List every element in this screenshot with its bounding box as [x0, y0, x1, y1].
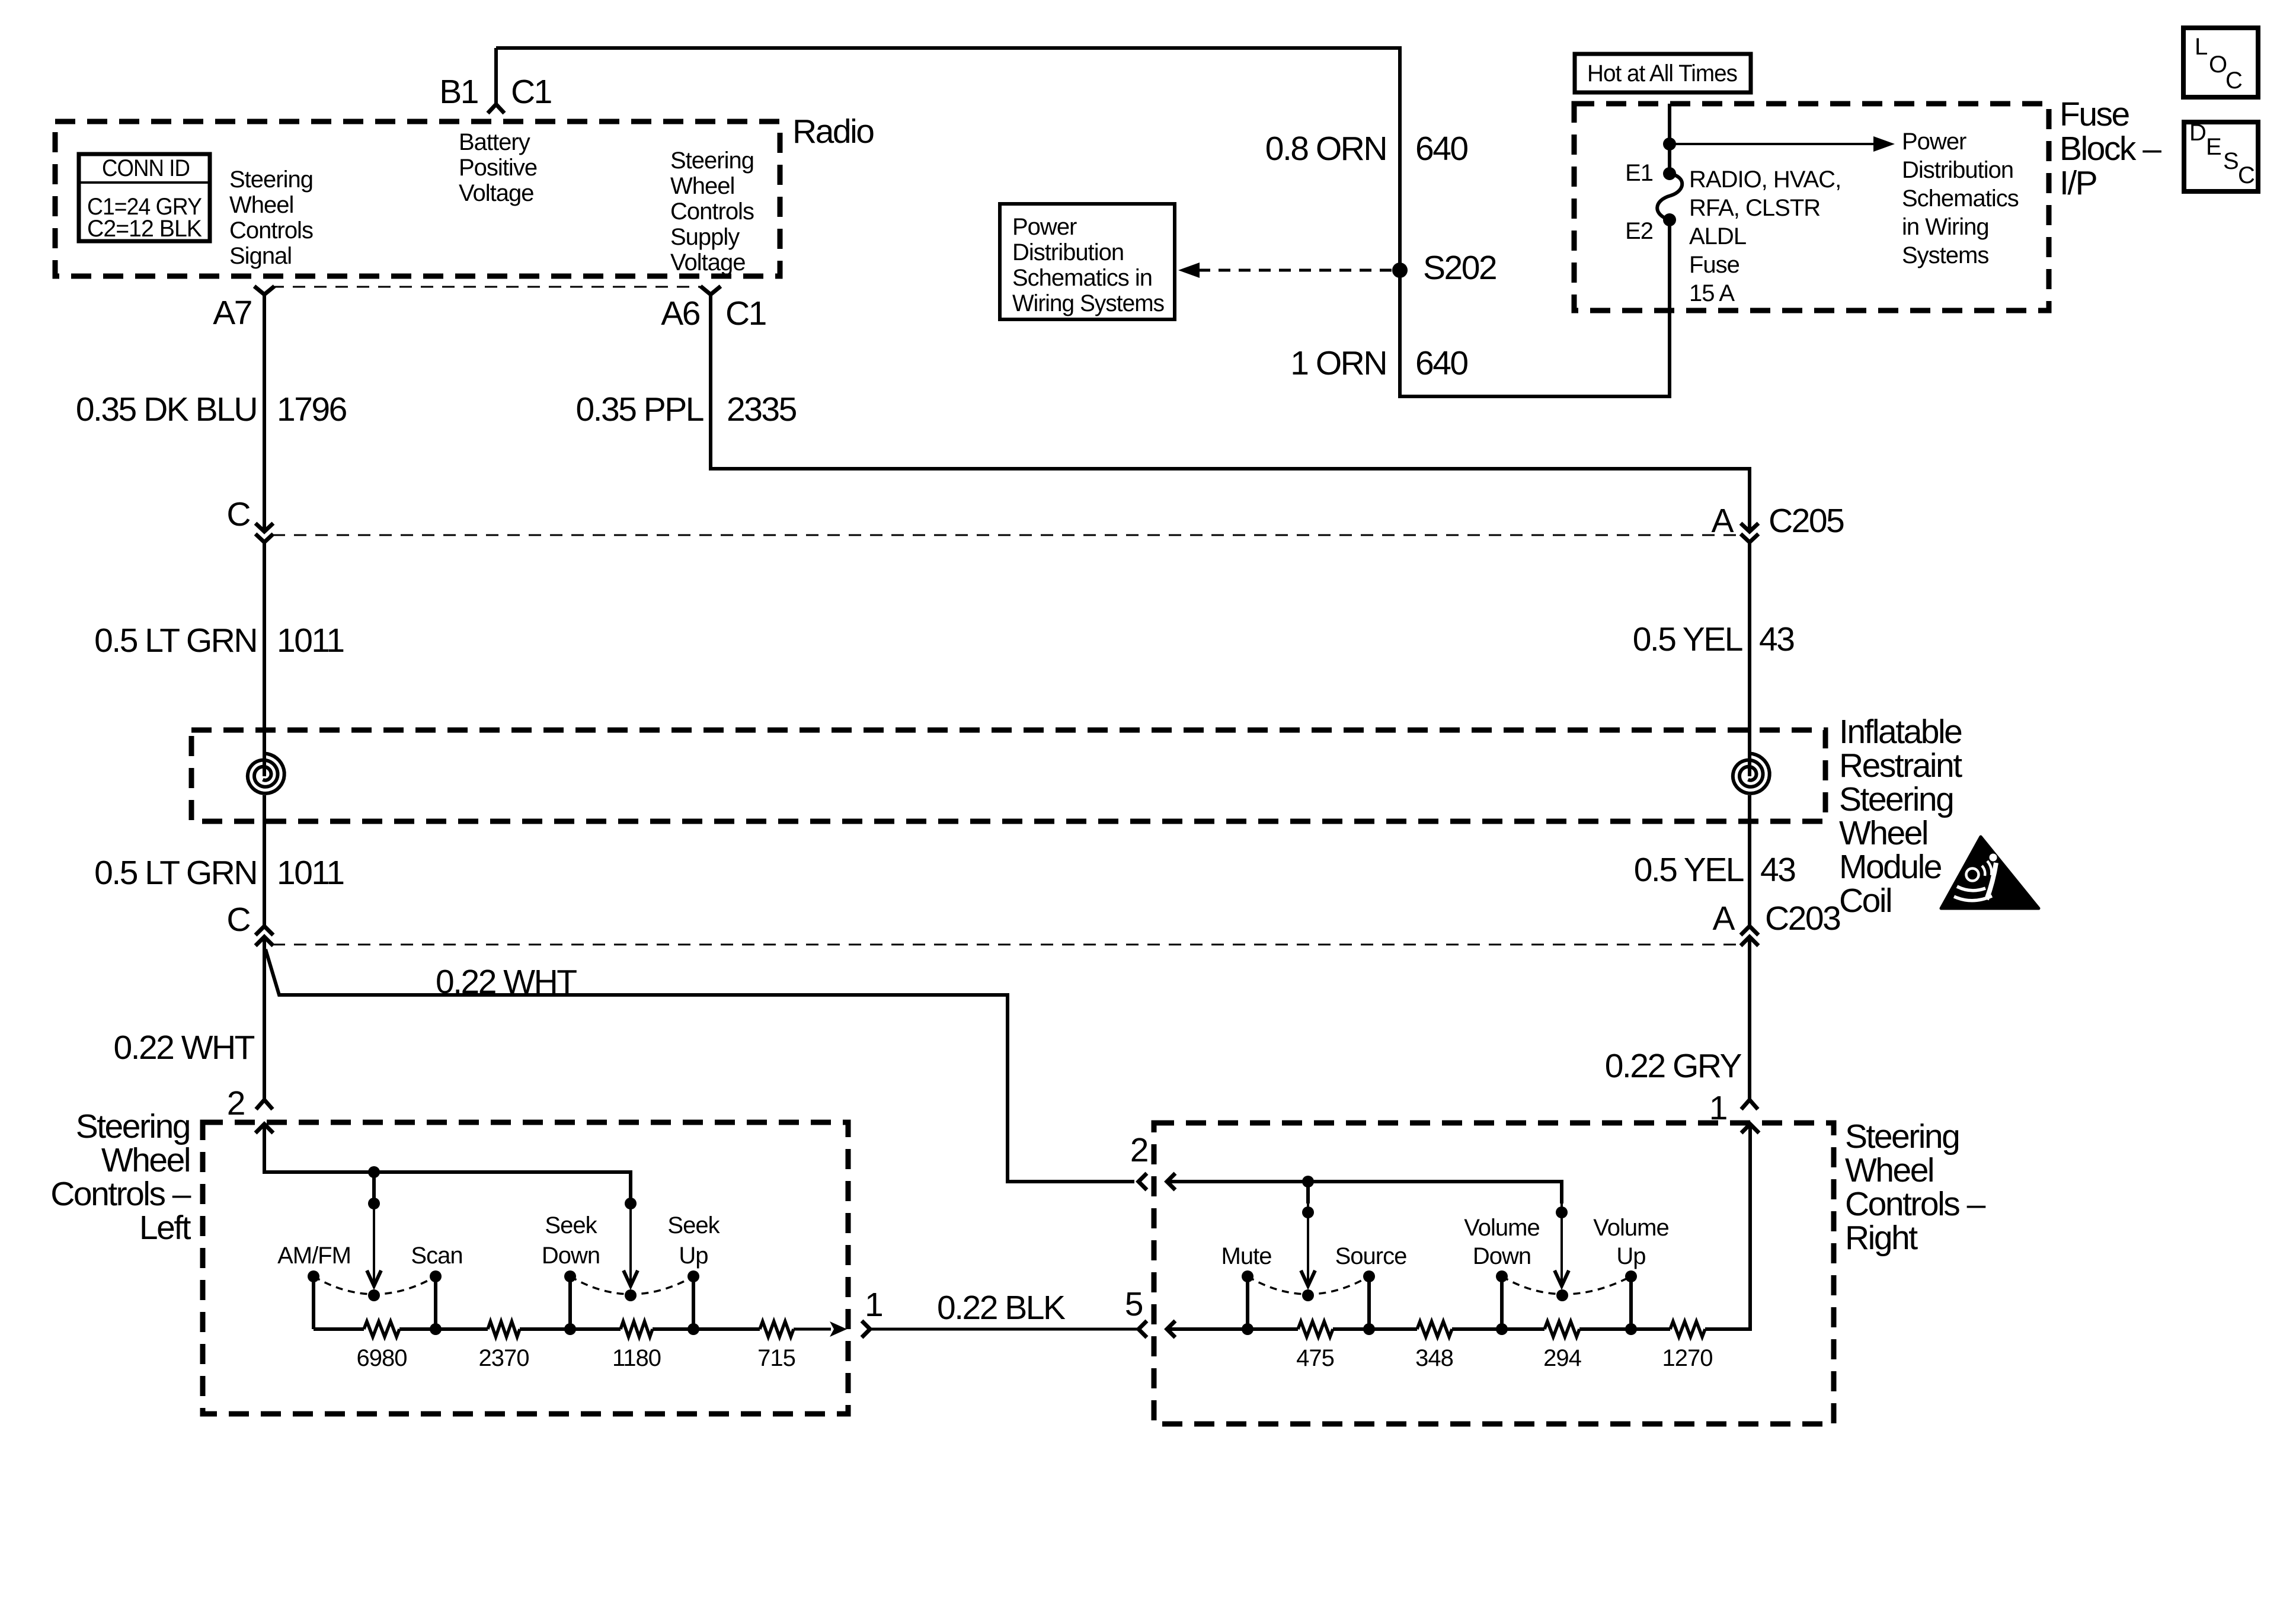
- svg-text:1180: 1180: [612, 1345, 661, 1371]
- svg-text:715: 715: [757, 1345, 795, 1371]
- svg-text:Inflatable: Inflatable: [1839, 713, 1962, 751]
- svg-text:Scan: Scan: [411, 1243, 462, 1269]
- svg-text:A7: A7: [213, 294, 251, 332]
- svg-text:Distribution: Distribution: [1902, 157, 2013, 183]
- svg-text:in Wiring: in Wiring: [1902, 214, 1989, 240]
- svg-text:Up: Up: [679, 1243, 708, 1269]
- svg-text:C203: C203: [1765, 900, 1840, 937]
- svg-text:RFA, CLSTR: RFA, CLSTR: [1689, 195, 1820, 221]
- svg-text:0.35 DK BLU: 0.35 DK BLU: [76, 391, 257, 428]
- svg-text:L: L: [2195, 34, 2207, 60]
- svg-text:Coil: Coil: [1839, 882, 1891, 920]
- svg-text:E2: E2: [1625, 218, 1653, 244]
- svg-text:Module: Module: [1839, 848, 1942, 886]
- svg-text:Down: Down: [542, 1243, 600, 1269]
- svg-text:6980: 6980: [357, 1345, 407, 1371]
- svg-text:294: 294: [1543, 1345, 1581, 1371]
- svg-text:1796: 1796: [277, 391, 347, 428]
- svg-text:Voltage: Voltage: [459, 180, 533, 206]
- svg-text:Controls –: Controls –: [50, 1175, 191, 1213]
- svg-text:Schematics in: Schematics in: [1012, 265, 1152, 291]
- svg-text:Hot at All Times: Hot at All Times: [1587, 60, 1737, 87]
- svg-text:S: S: [2223, 148, 2239, 174]
- svg-text:C1: C1: [725, 295, 766, 332]
- svg-text:0.8 ORN: 0.8 ORN: [1265, 130, 1386, 168]
- svg-text:2: 2: [227, 1084, 244, 1122]
- svg-text:0.35 PPL: 0.35 PPL: [575, 391, 703, 428]
- svg-text:Steering: Steering: [670, 148, 754, 174]
- svg-text:640: 640: [1415, 344, 1467, 382]
- svg-text:E1: E1: [1625, 160, 1653, 186]
- svg-text:Steering: Steering: [229, 167, 313, 193]
- svg-text:0.5 LT GRN: 0.5 LT GRN: [94, 622, 257, 660]
- svg-text:C: C: [2238, 162, 2255, 188]
- svg-text:ALDL: ALDL: [1689, 223, 1746, 249]
- svg-text:A: A: [1712, 900, 1735, 937]
- svg-text:Wheel: Wheel: [670, 173, 734, 199]
- svg-text:D: D: [2189, 120, 2206, 146]
- svg-text:Power: Power: [1902, 129, 1966, 155]
- svg-text:0.22 WHT: 0.22 WHT: [113, 1029, 254, 1067]
- svg-text:C2=12 BLK: C2=12 BLK: [87, 216, 202, 242]
- svg-text:Signal: Signal: [229, 243, 292, 269]
- svg-text:Block –: Block –: [2060, 130, 2161, 168]
- svg-text:Supply: Supply: [670, 224, 740, 250]
- svg-text:Wheel: Wheel: [229, 192, 293, 218]
- svg-text:Positive: Positive: [459, 155, 537, 181]
- svg-text:1011: 1011: [277, 854, 344, 892]
- svg-text:0.5 YEL: 0.5 YEL: [1634, 851, 1744, 889]
- svg-text:Steering: Steering: [1839, 780, 1953, 818]
- svg-text:I/P: I/P: [2060, 164, 2097, 202]
- svg-text:15 A: 15 A: [1689, 280, 1735, 306]
- svg-text:O: O: [2209, 52, 2227, 78]
- svg-text:0.5 LT GRN: 0.5 LT GRN: [94, 854, 257, 892]
- svg-text:43: 43: [1760, 851, 1795, 889]
- svg-text:CONN ID: CONN ID: [102, 155, 190, 181]
- svg-text:C: C: [2225, 68, 2242, 94]
- svg-text:B1: B1: [439, 73, 478, 111]
- svg-text:Distribution: Distribution: [1012, 239, 1124, 265]
- svg-text:Controls: Controls: [670, 199, 754, 225]
- svg-text:Up: Up: [1616, 1243, 1645, 1269]
- svg-text:2: 2: [1130, 1131, 1147, 1169]
- svg-text:0.22 BLK: 0.22 BLK: [937, 1289, 1066, 1327]
- svg-text:Voltage: Voltage: [670, 249, 745, 276]
- svg-text:AM/FM: AM/FM: [277, 1243, 351, 1269]
- svg-text:1 ORN: 1 ORN: [1290, 344, 1386, 382]
- svg-text:1011: 1011: [277, 622, 344, 660]
- svg-text:Volume: Volume: [1464, 1215, 1539, 1241]
- svg-text:Radio: Radio: [792, 113, 874, 151]
- svg-text:Right: Right: [1845, 1219, 1918, 1257]
- svg-text:Restraint: Restraint: [1839, 747, 1962, 785]
- svg-text:2370: 2370: [479, 1345, 529, 1371]
- svg-text:43: 43: [1759, 620, 1794, 658]
- svg-text:RADIO, HVAC,: RADIO, HVAC,: [1689, 167, 1841, 193]
- svg-text:2335: 2335: [727, 391, 797, 428]
- svg-text:1: 1: [865, 1286, 882, 1324]
- svg-text:348: 348: [1415, 1345, 1453, 1371]
- svg-text:C205: C205: [1769, 502, 1844, 540]
- svg-text:Controls: Controls: [229, 217, 313, 244]
- svg-text:Wheel: Wheel: [1839, 814, 1927, 852]
- svg-text:C: C: [226, 495, 250, 533]
- svg-text:Wiring Systems: Wiring Systems: [1012, 290, 1164, 316]
- svg-text:0.22 WHT: 0.22 WHT: [436, 963, 577, 1001]
- svg-text:640: 640: [1415, 130, 1467, 168]
- svg-text:Steering: Steering: [1845, 1118, 1959, 1156]
- svg-text:S202: S202: [1423, 249, 1496, 287]
- svg-text:Systems: Systems: [1902, 242, 1988, 268]
- svg-text:Left: Left: [139, 1209, 191, 1247]
- svg-text:Wheel: Wheel: [1845, 1151, 1933, 1189]
- svg-text:Mute: Mute: [1221, 1243, 1272, 1269]
- svg-text:0.22 GRY: 0.22 GRY: [1605, 1047, 1742, 1085]
- svg-text:A: A: [1711, 502, 1734, 540]
- svg-text:C: C: [226, 901, 250, 939]
- svg-text:A6: A6: [661, 295, 700, 332]
- svg-text:Schematics: Schematics: [1902, 185, 2019, 212]
- svg-text:Seek: Seek: [667, 1212, 720, 1238]
- svg-text:Seek: Seek: [545, 1212, 597, 1238]
- svg-text:475: 475: [1296, 1345, 1334, 1371]
- svg-text:Fuse: Fuse: [1689, 252, 1739, 278]
- svg-text:Steering: Steering: [76, 1108, 190, 1145]
- svg-text:0.5 YEL: 0.5 YEL: [1633, 620, 1742, 658]
- svg-text:Source: Source: [1335, 1243, 1407, 1269]
- svg-text:C1: C1: [511, 73, 551, 111]
- svg-text:Wheel: Wheel: [101, 1141, 190, 1179]
- svg-text:Battery: Battery: [459, 129, 530, 155]
- svg-text:1270: 1270: [1662, 1345, 1713, 1371]
- svg-text:Power: Power: [1012, 214, 1077, 240]
- svg-text:5: 5: [1125, 1285, 1143, 1323]
- svg-text:Controls –: Controls –: [1845, 1185, 1986, 1223]
- svg-text:Down: Down: [1473, 1243, 1531, 1269]
- svg-text:Volume: Volume: [1593, 1215, 1668, 1241]
- svg-text:Fuse: Fuse: [2060, 95, 2129, 133]
- svg-text:E: E: [2206, 134, 2221, 160]
